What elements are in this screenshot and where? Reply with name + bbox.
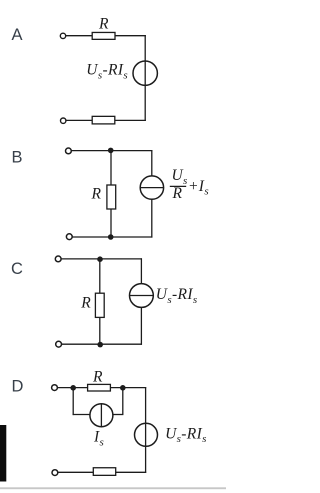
source U_s-RI_s (D, circle): [135, 423, 158, 446]
page divider rule (bottom): [0, 487, 226, 489]
junction (D top-left node): [70, 385, 76, 391]
source U_s-RI_s (A, circle): [133, 61, 157, 85]
resistor (A, bottom, unlabeled): [92, 116, 115, 124]
resistor R (C): [95, 293, 104, 317]
wire (D current-source branch, left down): [72, 388, 74, 416]
wire (B right rail lower): [151, 199, 153, 237]
svg-text:Us-RIs: Us-RIs: [86, 62, 128, 82]
wire (D right rail through source): [145, 387, 147, 473]
junction (B bottom node): [108, 234, 114, 240]
resistor R (A, top): [92, 32, 115, 39]
wire (B right rail upper): [151, 150, 153, 176]
junction (C bottom node): [97, 342, 103, 348]
resistor (D, bottom, unlabeled): [93, 468, 115, 476]
svg-text:R: R: [91, 185, 102, 202]
wire (A top, resistor to right corner): [115, 35, 146, 37]
wire (C resistor branch lower): [99, 317, 101, 344]
wire (D top, resistor to node): [110, 387, 146, 389]
wire (B resistor branch upper): [110, 151, 112, 185]
wire (B bottom): [72, 236, 152, 238]
resistor R (B): [107, 185, 116, 209]
wire (C bottom): [62, 343, 142, 345]
terminal (open circle, A top-left): [60, 33, 65, 38]
wire (B resistor branch lower): [110, 209, 112, 237]
svg-text:R: R: [80, 295, 91, 312]
terminal (open circle, D bottom-left): [52, 470, 58, 476]
terminal (open circle, D top-left): [52, 385, 58, 391]
wire (A top, terminal to resistor): [66, 35, 92, 37]
wire (C top): [61, 258, 142, 260]
wire (D current-source branch, left horizontal): [73, 414, 91, 416]
terminal (open circle, C bottom-left): [56, 341, 62, 347]
junction (D top-right node): [120, 385, 126, 391]
wire (A bottom, terminal to resistor): [66, 119, 92, 121]
svg-text:R: R: [98, 16, 109, 33]
wire (A right rail through source): [144, 35, 146, 121]
wire (D bottom, resistor to right corner): [116, 471, 147, 473]
svg-text:A: A: [12, 26, 23, 44]
scan artifact bar (left edge): [0, 425, 6, 482]
svg-text:R: R: [172, 185, 183, 202]
svg-text:Us-RIs: Us-RIs: [165, 425, 207, 445]
terminal (open circle, B top-left): [66, 148, 72, 154]
terminal (open circle, A bottom-left): [61, 118, 66, 123]
svg-text:C: C: [11, 260, 23, 278]
wire (B top): [72, 150, 153, 152]
current source I_s (D, circle with vertical bar): [90, 404, 113, 427]
wire (D top, terminal to node): [58, 387, 88, 389]
value label U_s/R + I_s (B): [170, 167, 209, 202]
wire (D bottom, terminal to resistor): [58, 471, 93, 473]
resistor R (D, top): [88, 384, 111, 391]
terminal (open circle, B bottom-left): [66, 234, 72, 240]
junction (B top node): [108, 148, 114, 154]
svg-text:Us-RIs: Us-RIs: [156, 286, 198, 306]
wire (C resistor branch upper): [99, 259, 101, 293]
junction (C top node): [97, 256, 103, 262]
source U_s-RI_s (C, circle with horizontal bar): [130, 284, 154, 308]
svg-text:B: B: [12, 149, 23, 167]
source U_s/R+I_s (B, circle with horizontal bar): [140, 176, 163, 199]
terminal (open circle, C top-left): [55, 256, 61, 262]
svg-text:D: D: [12, 378, 24, 396]
wire (D current-source branch, right horizontal): [113, 414, 124, 416]
wire (A bottom, resistor to right corner): [115, 119, 146, 121]
wire (D current-source branch, right up): [122, 388, 124, 415]
wire (C right rail lower): [140, 307, 142, 344]
wire (C right rail upper): [140, 258, 142, 284]
svg-text:R: R: [92, 369, 103, 386]
